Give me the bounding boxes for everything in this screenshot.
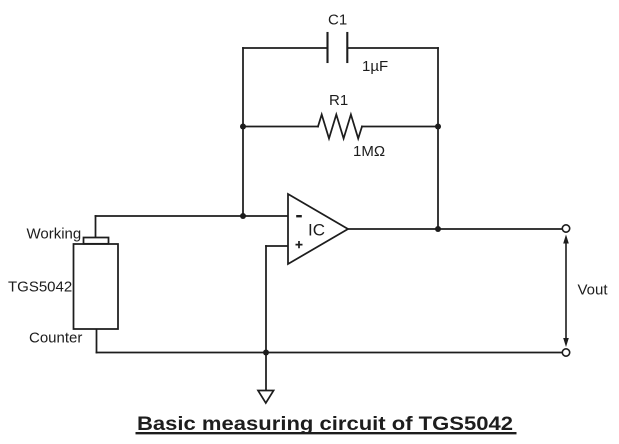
terminal Vout+ (open circle) — [562, 225, 569, 232]
junction: ground node on bottom rail — [263, 350, 269, 356]
op-amp U1 plus input sign — [296, 241, 303, 248]
wire: bottom rail (sensor counter electrode to Vout- terminal) — [97, 352, 563, 354]
ground — [258, 391, 274, 404]
resistor R1 — [318, 115, 362, 139]
sensor TGS5042 body — [74, 244, 119, 329]
svg-text:C1: C1 — [328, 11, 347, 28]
junction: output wire node — [435, 226, 441, 232]
op-amp U1 (IC) triangle — [288, 194, 348, 264]
wire: op-amp output wire (to Vout+ terminal) — [348, 228, 562, 230]
svg-text:Vout: Vout — [578, 282, 609, 299]
junction: inverting node at feedback rail left — [240, 124, 246, 130]
Vout dimension arrow (double-headed) — [563, 235, 569, 348]
sensor TGS5042 working-electrode cap — [84, 238, 109, 244]
svg-text:Basic measuring circuit of TGS: Basic measuring circuit of TGS5042 — [137, 413, 513, 435]
svg-text:1MΩ: 1MΩ — [353, 143, 385, 160]
wire: inverting input wire (sensor working electrode to op-amp minus input) — [96, 215, 289, 217]
svg-text:Working: Working — [27, 226, 82, 243]
svg-text:Counter: Counter — [29, 330, 82, 347]
wire: top rail right segment (C1 right plate to right branch) — [348, 47, 439, 49]
capacitor C1 — [328, 33, 348, 62]
wire: non-inverting input wire (to op-amp plus input) — [266, 245, 288, 247]
terminal Vout- (open circle) — [562, 349, 569, 356]
wire: feedback rail left segment (left branch to R1) — [243, 126, 318, 128]
svg-text:R1: R1 — [329, 92, 348, 109]
wire: left vertical branch (top rail down to inverting-input node) — [242, 48, 244, 216]
svg-text:IC: IC — [308, 221, 325, 240]
wire: non-inverting vertical wire (down through bottom rail to ground) — [265, 246, 267, 391]
svg-text:TGS5042: TGS5042 — [8, 278, 72, 295]
svg-text:1µF: 1µF — [362, 58, 388, 75]
wire: sensor counter electrode lead — [96, 329, 98, 353]
wire: feedback rail right segment (R1 to right branch) — [362, 126, 438, 128]
wire: right vertical branch (top rail down to output node) — [437, 48, 439, 229]
op-amp U1 minus input sign — [296, 215, 302, 217]
title underline — [136, 432, 517, 434]
wire: sensor working electrode lead (down to sensor cap) — [95, 216, 97, 238]
wire: top rail left segment (left branch to C1 left plate) — [243, 47, 327, 49]
junction: inverting input node — [240, 213, 246, 219]
junction: output node at feedback rail right — [435, 124, 441, 130]
